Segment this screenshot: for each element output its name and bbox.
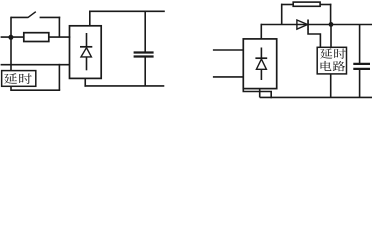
diode D2 top lead	[260, 48, 262, 59]
wire resistor left vertical	[281, 4, 283, 25]
diode D1 bottom lead	[86, 57, 88, 70]
resistor R2	[293, 2, 320, 6]
wire input terminal lower	[1, 64, 70, 66]
capacitor C1 plates	[134, 51, 154, 53]
capacitor C2 top lead	[359, 25, 361, 64]
diode D1 top lead	[86, 33, 88, 47]
wire box top stub	[260, 24, 262, 39]
wire resistor right stub	[320, 4, 331, 6]
node junction dot	[8, 35, 13, 40]
diode D3 cathode bar	[307, 20, 309, 30]
wire AC input upper stub	[213, 49, 243, 51]
capacitor C2 bottom lead	[359, 69, 361, 97]
diode D2 bottom lead	[260, 69, 262, 80]
wire left vertical main	[10, 17, 12, 71]
wire delay box bottom stub	[330, 74, 332, 98]
capacitor C1 top lead	[144, 11, 146, 52]
wire switch top horizontal left	[11, 16, 28, 18]
wire AC input lower stub	[213, 76, 243, 78]
label 延时电路	[320, 49, 346, 72]
resistor R	[24, 33, 49, 42]
wire switch corner vertical	[58, 17, 60, 37]
capacitor C2 plates	[353, 63, 370, 65]
wire resistor left stub	[281, 4, 293, 6]
wire delay box bottom stub	[10, 86, 12, 91]
diode D3 triangle	[297, 20, 308, 29]
switch S blade	[28, 12, 36, 18]
wire dot to delay box	[330, 25, 332, 49]
delay circuit box 延时电路	[317, 47, 346, 74]
wire switch top horizontal right	[40, 16, 61, 18]
wire box bottom stub	[84, 78, 86, 86]
wire resistor right vertical	[330, 4, 332, 25]
capacitor C1 bottom lead	[144, 57, 146, 86]
wire right vertical of delay loop	[58, 64, 60, 90]
wire top rail main	[261, 24, 372, 26]
wire bottom rail	[84, 85, 164, 87]
wire top rail	[89, 10, 165, 12]
node junction dot	[329, 22, 334, 27]
diode D1 cathode bar	[80, 46, 92, 48]
wire input terminal upper	[1, 36, 24, 38]
diode D2 cathode bar	[255, 57, 267, 59]
wire D3 to delay box (stepped)	[308, 29, 320, 48]
wire box top stub	[89, 11, 91, 26]
rectifier box U1	[70, 26, 102, 79]
diode D2 triangle	[256, 59, 266, 69]
wire resistor to box	[49, 36, 71, 38]
wire box bottom-left step	[243, 89, 271, 99]
wire bottom rail	[260, 96, 372, 98]
diode D1 triangle	[81, 48, 91, 57]
label 延时	[4, 73, 32, 84]
rectifier box U2	[243, 39, 276, 89]
delay box 延时	[2, 71, 36, 87]
wire bottom-left rail	[11, 89, 60, 91]
wire box bottom stub	[259, 89, 261, 98]
